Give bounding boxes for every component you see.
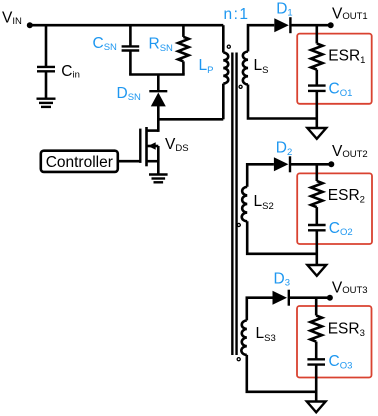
- controller U1 box: [41, 151, 118, 172]
- svg-text:LS: LS: [254, 57, 269, 76]
- wire drain node to primary bottom: [158, 118, 223, 121]
- wire DSN to drain node: [157, 106, 160, 132]
- node VOUT2 terminal dot: [328, 161, 334, 167]
- svg-text:ESR1: ESR1: [328, 48, 365, 66]
- wire Cin branch upper: [45, 25, 48, 66]
- wire controller to gate: [118, 160, 141, 163]
- svg-text:LS2: LS2: [254, 193, 274, 212]
- wire LS2 top to D2: [247, 164, 274, 187]
- svg-text:ESR3: ESR3: [328, 321, 365, 339]
- red highlight box output 3: [297, 306, 372, 378]
- capacitor CO2: [308, 225, 326, 230]
- svg-text:DSN: DSN: [117, 85, 142, 103]
- capacitor Cin: [37, 67, 55, 71]
- wire LS top to D1: [248, 25, 274, 51]
- svg-text:LS3: LS3: [256, 325, 276, 344]
- svg-text:VDS: VDS: [165, 136, 189, 154]
- svg-text:n:1: n:1: [224, 6, 250, 23]
- svg-text:CO3: CO3: [329, 353, 353, 371]
- wire LS3 bottom rail: [247, 355, 316, 392]
- resistor ESR2: [311, 181, 323, 207]
- ground below MOSFET source: [149, 175, 168, 183]
- ground output 2 triangle: [307, 265, 326, 276]
- svg-text:VOUT2: VOUT2: [332, 143, 368, 160]
- svg-text:ESR2: ESR2: [328, 187, 365, 205]
- svg-text:Controller: Controller: [46, 154, 113, 171]
- wire LS2 bottom rail: [247, 221, 317, 254]
- wire CO1 to ground 1: [315, 91, 318, 128]
- svg-text:RSN: RSN: [149, 36, 174, 54]
- wire D1 to VOUT1: [290, 24, 330, 27]
- wire VOUT3 branch to ESR3: [315, 298, 318, 316]
- wire main top rail VIN to primary: [30, 24, 224, 27]
- ground output 1 triangle: [307, 128, 326, 139]
- svg-text:CSN: CSN: [93, 35, 118, 53]
- capacitor CO1: [308, 86, 326, 91]
- wire RSN branch lower: [182, 61, 185, 74]
- svg-text:LP: LP: [199, 57, 214, 76]
- ground output 3 triangle: [307, 402, 326, 413]
- red highlight box output 2: [297, 173, 372, 244]
- resistor ESR3: [310, 316, 322, 342]
- svg-text:D3: D3: [274, 270, 291, 288]
- wire CO2 to ground 2: [315, 230, 318, 265]
- capacitor CO3: [307, 359, 325, 364]
- wire snubber rail to DSN: [157, 75, 160, 92]
- wire primary bottom: [222, 84, 225, 120]
- resistor ESR1: [311, 44, 323, 70]
- wire Cin to ground: [45, 71, 48, 98]
- capacitor CSN: [122, 46, 140, 50]
- svg-text:CO2: CO2: [329, 220, 353, 238]
- diode D3: [273, 290, 289, 306]
- wire primary top: [222, 25, 225, 52]
- node VOUT3 terminal dot: [327, 295, 333, 301]
- wire CSN branch upper: [129, 25, 132, 46]
- wire D3 to VOUT3: [289, 296, 330, 299]
- wire snubber bottom rail: [129, 73, 185, 76]
- diode D1: [274, 17, 290, 33]
- node VIN terminal dot: [27, 22, 33, 28]
- wire RSN branch upper: [182, 25, 185, 37]
- inductor LS2 winding: [242, 187, 247, 222]
- wire LS3 top to D3: [247, 298, 273, 321]
- wire ESR1 to CO1: [315, 70, 318, 86]
- red highlight box output 1: [297, 34, 372, 104]
- svg-text:CO1: CO1: [329, 81, 353, 99]
- svg-text:Cin: Cin: [61, 63, 80, 81]
- node VOUT1 terminal dot: [328, 22, 334, 28]
- wire VOUT1 branch to ESR1: [315, 25, 318, 43]
- wire VOUT2 branch to ESR2: [315, 164, 318, 181]
- ground below Cin: [37, 99, 56, 107]
- inductor LS3 winding: [241, 320, 246, 355]
- svg-text:D2: D2: [276, 140, 293, 158]
- transistor Q1 MOSFET: [140, 127, 158, 174]
- svg-text:VOUT3: VOUT3: [332, 279, 368, 296]
- diode DSN: [149, 91, 167, 106]
- wire ESR2 to CO2: [315, 207, 318, 225]
- inductor LS secondary 1 winding: [243, 52, 248, 85]
- wire CO3 to ground 3: [315, 365, 318, 402]
- node primary phase dot: [227, 45, 230, 48]
- inductor LP primary winding: [223, 53, 228, 84]
- wire ESR3 to CO3: [315, 342, 318, 360]
- wire D2 to VOUT2: [290, 163, 331, 166]
- svg-text:VIN: VIN: [2, 9, 22, 27]
- node LS phase dot: [239, 85, 242, 88]
- node LS2 phase dot: [237, 223, 240, 226]
- svg-text:VOUT1: VOUT1: [332, 5, 368, 22]
- resistor RSN: [178, 37, 189, 62]
- node LS3 phase dot: [237, 358, 240, 361]
- svg-text:D1: D1: [276, 0, 293, 18]
- diode D2: [274, 156, 290, 172]
- transformer core: [232, 53, 236, 356]
- wire LS bottom rail: [248, 85, 317, 119]
- wire CSN branch lower: [129, 51, 132, 75]
